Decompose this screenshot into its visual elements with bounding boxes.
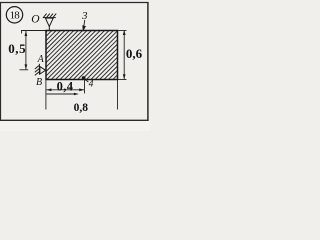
- svg-text:0,5: 0,5: [8, 41, 26, 56]
- svg-text:O: O: [31, 13, 40, 25]
- svg-text:A: A: [37, 54, 45, 65]
- svg-text:0,4: 0,4: [57, 80, 74, 94]
- svg-text:18: 18: [10, 9, 21, 21]
- svg-text:0,8: 0,8: [74, 102, 89, 114]
- svg-text:0,6: 0,6: [126, 46, 143, 61]
- svg-text:4: 4: [89, 79, 94, 89]
- svg-text:3: 3: [81, 10, 88, 22]
- svg-text:B: B: [36, 77, 42, 88]
